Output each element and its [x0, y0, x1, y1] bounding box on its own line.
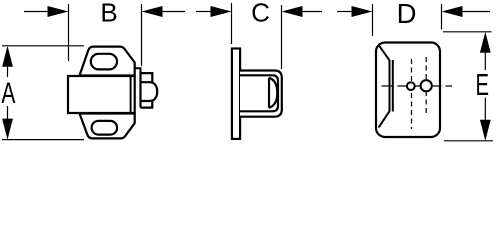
side view housing outer outline	[240, 71, 282, 117]
dimension C right extension line	[281, 5, 283, 69]
front view case inner right wall line	[130, 76, 132, 113]
dimension B left arrowhead	[48, 6, 69, 17]
svg-text:D: D	[397, 0, 417, 29]
top view screw hole	[407, 82, 415, 90]
front view bottom mounting ear	[80, 114, 135, 139]
front view top mounting ear	[80, 47, 135, 76]
dimension C right tail	[302, 11, 322, 13]
dimension D left arrowhead	[352, 6, 373, 17]
top view chamfer outer vertical	[392, 60, 394, 112]
top view roller hole	[421, 80, 432, 91]
svg-text:E: E	[476, 67, 490, 102]
top view base outline	[376, 43, 440, 138]
svg-text:C: C	[251, 0, 270, 27]
front view bottom slot	[92, 121, 118, 135]
dimension E line lower segment	[484, 98, 486, 121]
side view roller arc	[269, 78, 277, 108]
dimension D left tail	[337, 11, 352, 13]
side view housing inner outline	[240, 75, 278, 111]
dimension D right extension line	[441, 4, 443, 30]
dimension E line upper segment	[484, 52, 486, 70]
top view left chamfer bottom slant	[379, 111, 390, 127]
side view roller chord	[268, 78, 270, 108]
dimension B left tail	[24, 11, 48, 13]
front view roller	[142, 82, 158, 101]
front view top slot	[91, 54, 117, 70]
dimension C left arrowhead	[211, 6, 232, 17]
dimension E arrow down	[480, 120, 491, 141]
dimension B right extension line	[141, 4, 143, 66]
top view left chamfer top slant	[378, 45, 389, 61]
top view vertical centerline through roller hole	[425, 57, 427, 116]
dimension E extension line top	[443, 31, 492, 33]
front view roller box	[141, 73, 153, 108]
dimension A extension line bottom	[2, 139, 84, 141]
dimension C left tail	[196, 11, 211, 13]
top view chamfer inner vertical	[389, 60, 391, 112]
front view case body	[68, 76, 135, 113]
dimension B right arrowhead	[142, 6, 163, 17]
dimension B left extension line	[68, 4, 70, 61]
dimension C right arrowhead	[282, 6, 303, 17]
side view mounting plate	[232, 49, 240, 139]
dimension A arrow up	[2, 46, 13, 67]
svg-text:B: B	[100, 0, 117, 27]
dimension D left extension line	[372, 4, 374, 36]
dimension D right tail	[462, 11, 490, 13]
dimension A line lower segment	[7, 106, 9, 120]
dimension C left extension line	[231, 3, 233, 44]
front view housing step top	[135, 68, 141, 73]
dimension E extension line bottom	[444, 140, 493, 142]
dimension A arrow down	[2, 119, 13, 140]
dimension A line upper segment	[7, 66, 9, 77]
dimension D right arrowhead	[442, 6, 463, 17]
dimension B right tail	[162, 11, 185, 13]
dimension A extension line top	[2, 45, 84, 47]
dimension E arrow up	[480, 32, 491, 53]
svg-text:A: A	[1, 77, 15, 110]
top view horizontal centerline	[382, 85, 453, 87]
top view vertical centerline through screw hole	[411, 59, 413, 129]
